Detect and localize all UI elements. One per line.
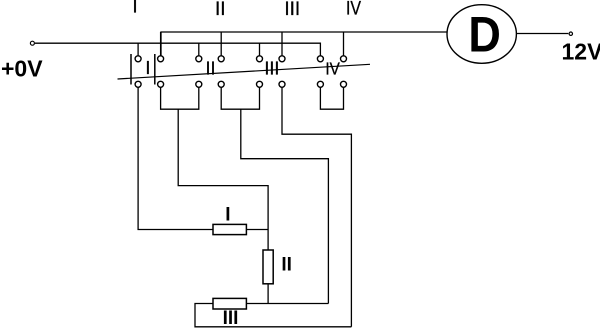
contact lower 7 — [317, 81, 323, 87]
wire resistor I right to node — [246, 229, 268, 231]
wire resistor III right to junction — [246, 303, 328, 305]
svg-text:I: I — [132, 0, 137, 18]
wire bracket contacts 2-3 — [161, 87, 199, 109]
svg-text:12V: 12V — [562, 39, 600, 65]
wire resistor III left to bottom rail — [195, 304, 351, 327]
wire stub upper contact 6 — [281, 32, 283, 56]
resistor III — [213, 298, 246, 309]
contact lower 2 — [158, 81, 164, 87]
wire main +0V rail — [35, 43, 320, 56]
contact lower 8 — [341, 81, 347, 87]
contact lower 1 — [135, 81, 141, 87]
wiper tick left — [130, 54, 132, 85]
contact upper 6 — [279, 56, 285, 62]
contact upper 1 — [135, 56, 141, 62]
contact upper 3 — [196, 56, 202, 62]
wiper tick right — [154, 54, 156, 85]
contact upper 5 — [257, 56, 263, 62]
wire top bus to motor — [161, 32, 447, 56]
label motor D — [468, 7, 500, 63]
svg-text:+0V: +0V — [1, 56, 43, 82]
wire bracket contacts 7-8 — [320, 87, 343, 109]
svg-text:III: III — [284, 0, 300, 20]
svg-text:II: II — [215, 0, 226, 20]
contact upper 7 — [317, 56, 323, 62]
label position IV (top) — [346, 0, 361, 19]
svg-text:I: I — [145, 58, 150, 78]
wire stub upper contact 3 — [198, 43, 200, 56]
svg-text:III: III — [223, 308, 239, 329]
contact lower 5 — [257, 81, 263, 87]
wire contact 6 to bottom rail — [282, 87, 351, 327]
wire bracket 1 tap to resistor II top — [178, 109, 268, 250]
wire stub upper contact 5 — [259, 43, 261, 56]
contact upper 4 — [218, 56, 224, 62]
svg-text:IV: IV — [325, 58, 340, 78]
node 12V terminal — [569, 32, 572, 35]
wiper slide bar — [118, 64, 371, 79]
contact upper 8 — [341, 56, 347, 62]
resistor I — [213, 224, 246, 234]
svg-text:I: I — [225, 205, 230, 226]
svg-text:II: II — [205, 59, 215, 79]
node +0V terminal — [30, 41, 34, 45]
wire stub upper contact 8 — [343, 32, 345, 56]
svg-text:II: II — [281, 254, 292, 275]
contact lower 4 — [218, 81, 224, 87]
motor D — [447, 5, 516, 64]
contact lower 3 — [196, 81, 202, 87]
wire stub upper contact 4 — [220, 32, 222, 56]
contact lower 6 — [279, 81, 285, 87]
wire bracket contacts 4-5 — [221, 87, 259, 109]
wire stub upper contact 1 — [137, 43, 139, 56]
svg-text:D: D — [468, 7, 500, 63]
wire resistor II bottom — [267, 284, 269, 304]
resistor II — [263, 250, 273, 284]
wire motor to 12V terminal — [516, 33, 568, 35]
svg-text:III: III — [264, 59, 279, 79]
contact upper 2 — [158, 56, 164, 62]
wire bracket 2 tap to lower junction — [241, 109, 329, 303]
svg-text:IV: IV — [346, 0, 361, 19]
wire contact 1 to resistor I left — [138, 87, 213, 229]
wire stub upper contact 2 — [160, 32, 162, 56]
label wiper position IV — [325, 58, 340, 78]
